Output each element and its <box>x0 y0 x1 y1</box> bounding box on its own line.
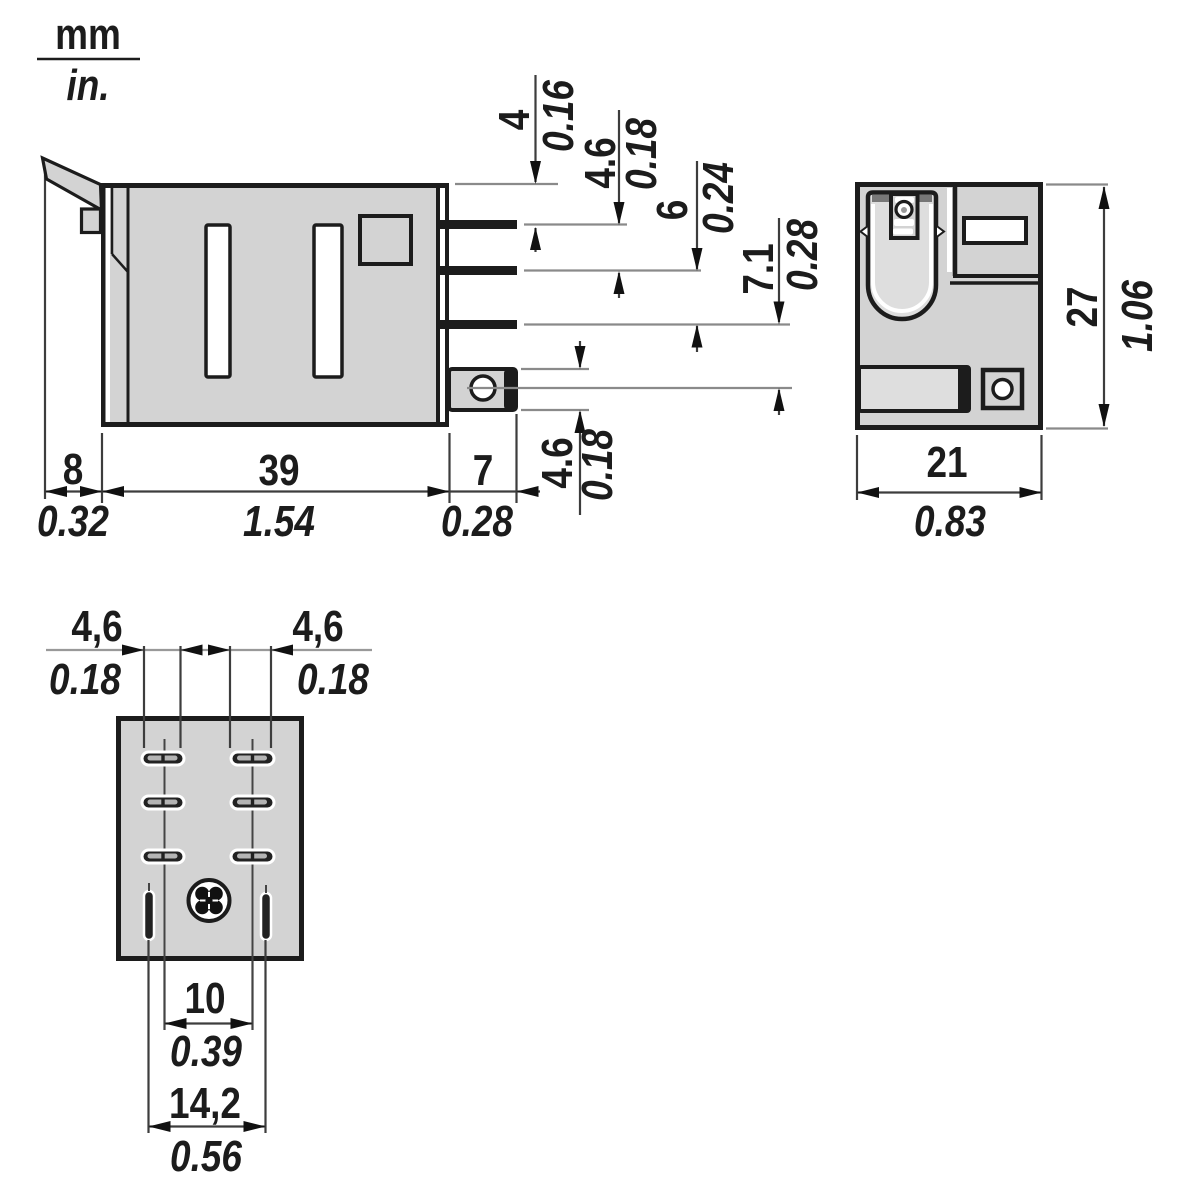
svg-text:0.83: 0.83 <box>914 496 986 546</box>
svg-text:7.1: 7.1 <box>733 243 783 294</box>
svg-text:6: 6 <box>647 200 697 221</box>
svg-text:1.54: 1.54 <box>243 496 315 546</box>
svg-text:27: 27 <box>1057 286 1107 327</box>
svg-text:21: 21 <box>926 437 967 487</box>
svg-text:4,6: 4,6 <box>292 601 343 651</box>
svg-text:4,6: 4,6 <box>71 601 122 651</box>
svg-text:0.18: 0.18 <box>49 654 121 704</box>
svg-text:0.18: 0.18 <box>572 429 622 501</box>
svg-text:in.: in. <box>66 60 109 110</box>
svg-text:10: 10 <box>184 973 225 1023</box>
svg-text:39: 39 <box>258 445 299 495</box>
svg-text:0.28: 0.28 <box>777 219 827 291</box>
svg-text:1.06: 1.06 <box>1112 280 1162 352</box>
svg-text:mm: mm <box>55 9 121 59</box>
svg-text:4: 4 <box>489 109 539 130</box>
svg-text:7: 7 <box>473 445 494 495</box>
svg-text:0.56: 0.56 <box>170 1131 242 1181</box>
svg-text:8: 8 <box>63 444 84 494</box>
svg-text:0.18: 0.18 <box>297 654 369 704</box>
svg-text:0.32: 0.32 <box>37 496 109 546</box>
svg-text:0.24: 0.24 <box>693 162 743 234</box>
svg-text:0.28: 0.28 <box>441 496 513 546</box>
svg-text:0.39: 0.39 <box>170 1026 242 1076</box>
svg-text:14,2: 14,2 <box>169 1078 241 1128</box>
svg-text:0.18: 0.18 <box>616 118 666 190</box>
